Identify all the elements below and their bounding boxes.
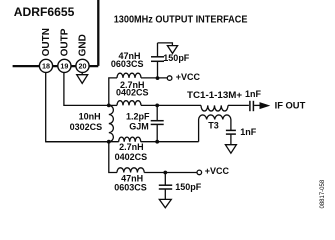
arrow IF OUT [260, 102, 271, 109]
capacitor C2 150pF (bottom decoupling) [159, 173, 172, 200]
inductor L3 10nH 0302CS (vertical shunt) [109, 105, 114, 141]
junction 1.2pF bottom [155, 140, 159, 144]
svg-text:0402CS: 0402CS [115, 152, 148, 162]
wire transformer top to C5 [228, 104, 249, 106]
junction 1.2pF top [155, 104, 159, 108]
ground at C2 [159, 199, 171, 207]
svg-text:150pF: 150pF [175, 182, 202, 192]
transformer T3 secondary (bottom winding) [199, 115, 231, 142]
transformer T3 TC1-1-13M+ primary (top winding) [201, 105, 228, 111]
pin 20 [76, 59, 89, 72]
wire 47nH to +VCC node bottom [144, 172, 197, 174]
wire bottom rail [46, 141, 119, 143]
svg-text:ADRF6655: ADRF6655 [14, 5, 75, 19]
ground at C6 [225, 145, 236, 154]
inductor L2 47nH 0603CS (top bias feed) [117, 73, 141, 78]
svg-text:1300MHz OUTPUT INTERFACE: 1300MHz OUTPUT INTERFACE [114, 15, 248, 26]
svg-text:18: 18 [42, 62, 50, 71]
inductor L1 2.7nH 0402CS (top series) [117, 101, 141, 106]
svg-text:0603CS: 0603CS [114, 182, 147, 192]
pin 18 [39, 59, 52, 72]
junction +VCC top [156, 76, 160, 80]
inductor L4 2.7nH 0402CS (bottom series) [119, 137, 141, 142]
svg-text:+VCC: +VCC [176, 72, 201, 82]
svg-text:0302CS: 0302CS [70, 122, 103, 132]
wire top rail segments [108, 104, 117, 106]
capacitor C6 1nF (secondary to ground) [226, 130, 236, 144]
junction bottom rail / 10nH / 47nH tap [107, 140, 111, 144]
capacitor C3 1.2pF GJM (shunt) [151, 105, 164, 141]
svg-text:IF OUT: IF OUT [275, 101, 306, 112]
terminal +VCC top [167, 76, 172, 81]
svg-text:0402CS: 0402CS [116, 88, 149, 98]
svg-text:08817-058: 08817-058 [320, 179, 326, 208]
svg-text:10nH: 10nH [79, 111, 101, 121]
wire bottom rail to transformer leg [141, 141, 199, 143]
junction +VCC bottom [163, 171, 167, 175]
svg-text:T3: T3 [208, 121, 219, 131]
wire top rail to transformer [141, 104, 201, 106]
wire 47nH tap up [109, 78, 117, 106]
ground at C1 [158, 43, 178, 54]
svg-text:1nF: 1nF [245, 89, 262, 99]
wire pin19 (OUTP) down and right to top rail [64, 73, 108, 106]
capacitor C5 1nF (series, IF OUT) [250, 101, 260, 111]
inductor L5 47nH 0603CS (bottom bias feed) [117, 168, 144, 173]
svg-text:20: 20 [79, 62, 87, 71]
terminal +VCC bottom [197, 170, 202, 175]
capacitor C1 150pF (top decoupling) [151, 43, 164, 78]
svg-text:2.7nH: 2.7nH [119, 142, 144, 152]
svg-text:OUTN: OUTN [41, 28, 52, 56]
svg-text:OUTP: OUTP [60, 28, 71, 56]
wire 47nH to +VCC node [141, 77, 167, 79]
IC U1 ADRF6655 (body outline, right and bottom edges) [13, 0, 99, 66]
svg-text:1nF: 1nF [240, 127, 257, 137]
svg-text:GND: GND [78, 34, 89, 56]
svg-text:0603CS: 0603CS [111, 59, 144, 69]
junction top rail / 10nH / 47nH tap [107, 104, 111, 108]
wire pin18 (OUTN) down and right to bottom rail [46, 73, 108, 142]
svg-text:TC1-1-13M+: TC1-1-13M+ [187, 90, 242, 100]
svg-text:+VCC: +VCC [205, 166, 230, 176]
svg-text:1.2pF: 1.2pF [126, 112, 150, 122]
svg-text:19: 19 [60, 62, 68, 71]
ground at pin 20 [77, 73, 88, 84]
svg-text:GJM: GJM [129, 121, 149, 131]
svg-text:150pF: 150pF [163, 53, 190, 63]
pin 19 [58, 59, 71, 72]
wire 47nH bottom tap down [109, 142, 117, 173]
